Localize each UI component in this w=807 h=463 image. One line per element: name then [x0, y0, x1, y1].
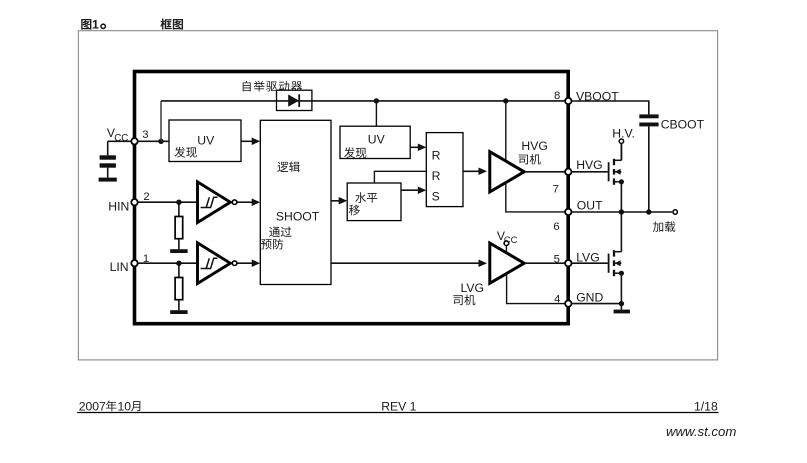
- LVG driver U3: [490, 243, 524, 283]
- wire H.V. to Q1 drain: [620, 143, 622, 160]
- node Q2 source: [619, 271, 624, 276]
- wire level shifter to latch S: [401, 189, 419, 191]
- wire Q1 drain up: [620, 144, 622, 160]
- wire LIN input: [138, 262, 197, 264]
- wire gate (Q2): [572, 262, 608, 264]
- wire HVG driver output to pin 7: [524, 171, 565, 173]
- logic / shoot-through prevention block: [260, 120, 331, 284]
- node bootstrap/HVG driver junction: [503, 98, 508, 103]
- wire down to HVG driver supply: [505, 101, 507, 162]
- wire UV1 to logic: [241, 140, 253, 142]
- svg-text:UV: UV: [197, 134, 215, 148]
- schmitt trigger (LIN): [198, 243, 231, 284]
- terminal VCC (LVG driver): [504, 241, 509, 246]
- pin 7 HVG terminal: [565, 169, 571, 175]
- wire logic to LVG driver: [331, 262, 480, 264]
- wire Q1 source to OUT: [620, 182, 622, 212]
- svg-text:3: 3: [142, 129, 148, 141]
- svg-text:SHOOT: SHOOT: [276, 210, 320, 224]
- svg-text:REV 1: REV 1: [381, 399, 416, 413]
- node Q1 source: [619, 179, 624, 184]
- wire C1 to ground: [107, 168, 109, 178]
- svg-text:5: 5: [554, 254, 560, 266]
- pin 4 GND terminal: [565, 300, 571, 306]
- node bootstrap/UV2 junction: [374, 98, 379, 103]
- ground (VCC cap): [99, 178, 117, 182]
- wire UV2 to latch R: [410, 146, 419, 148]
- wire logic to level shifter: [331, 200, 340, 202]
- svg-text:HVG: HVG: [521, 139, 547, 153]
- svg-text:R: R: [432, 148, 441, 162]
- svg-text:H.V.: H.V.: [612, 126, 635, 140]
- bootstrap driver box: [277, 90, 312, 110]
- RS latch block: [426, 133, 463, 207]
- HVG driver U2: [490, 152, 524, 192]
- svg-text:HIN: HIN: [108, 200, 129, 214]
- ground (power): [614, 310, 630, 314]
- node GND: [619, 301, 624, 306]
- wire gate (Q1): [572, 171, 608, 173]
- svg-text:2: 2: [143, 191, 149, 203]
- label 自举驱动器: [243, 81, 251, 92]
- UV detection block 1: [169, 120, 241, 162]
- pin 5 LVG terminal: [565, 260, 571, 266]
- node OUT / CBOOT: [646, 209, 651, 214]
- inverter bubble (HIN): [232, 200, 237, 205]
- ground (HIN resistor): [170, 249, 187, 253]
- node LIN junction: [176, 261, 181, 266]
- wire latch to HVG driver: [463, 170, 480, 172]
- wire GND pin to ground: [572, 303, 622, 305]
- svg-text:LIN: LIN: [110, 260, 129, 274]
- wire HIN trigger to logic: [238, 201, 254, 203]
- svg-text:www.st.com: www.st.com: [666, 424, 736, 439]
- wire CBOOT to OUT node: [648, 126, 650, 212]
- svg-text:2007: 2007: [79, 399, 106, 413]
- wire VCC up to bootstrap rail: [160, 101, 162, 141]
- resistor R2 (LIN pulldown): [178, 263, 180, 277]
- inverter bubble (LIN): [232, 261, 237, 266]
- wire bootstrap rail (to pin 8): [161, 100, 566, 102]
- svg-text:LVG: LVG: [461, 281, 484, 295]
- UV detection block 2: [340, 126, 410, 158]
- wire Q2 drain to OUT: [620, 212, 622, 252]
- svg-text:UV: UV: [368, 133, 386, 147]
- pin 1 LIN terminal: [131, 260, 137, 266]
- svg-text:10: 10: [118, 399, 132, 413]
- svg-text:7: 7: [553, 183, 559, 195]
- svg-text:S: S: [432, 190, 440, 204]
- svg-text:8: 8: [554, 90, 560, 102]
- wire VBOOT to CBOOT: [572, 101, 649, 114]
- svg-text:6: 6: [553, 221, 559, 233]
- label 加载: [653, 221, 663, 232]
- wire LIN trigger to logic: [238, 262, 254, 264]
- svg-text:1/18: 1/18: [694, 399, 718, 413]
- ground (LIN resistor): [170, 310, 187, 314]
- wire level shifter to latch R (top loop): [374, 171, 426, 183]
- wire LVG driver low rail to GND: [507, 274, 565, 304]
- diode D1 (bootstrap): [288, 95, 299, 107]
- title 框图: [160, 19, 171, 30]
- svg-text:1: 1: [92, 17, 99, 31]
- pin 8 VBOOT terminal: [565, 98, 571, 104]
- wire VCC node to UV1: [138, 140, 170, 142]
- wire HVG driver low rail to OUT: [506, 182, 565, 212]
- pin 2 HIN terminal: [131, 199, 137, 205]
- svg-text:4: 4: [554, 294, 560, 306]
- svg-text:CC: CC: [114, 133, 128, 144]
- pin 3 VCC terminal: [131, 138, 137, 144]
- node OUT / Q1-Q2: [619, 209, 624, 214]
- node HIN junction: [176, 200, 181, 205]
- transistor Q2: [609, 250, 622, 276]
- svg-text:GND: GND: [576, 291, 603, 305]
- wire OUT to load: [572, 211, 673, 213]
- figure frame: [78, 31, 717, 360]
- wire down to UV2: [375, 101, 377, 126]
- wire LVG driver output to pin 5: [524, 262, 565, 264]
- resistor R1 (HIN pulldown): [178, 202, 180, 216]
- transistor Q1: [609, 159, 622, 185]
- capacitor C1 (VCC decoupling): [100, 155, 116, 159]
- capacitor CBOOT: [639, 114, 658, 118]
- wire VCC external: [108, 140, 131, 142]
- terminal load: [673, 210, 677, 214]
- terminal H.V.: [619, 139, 623, 143]
- svg-text:OUT: OUT: [577, 199, 603, 213]
- wire Q2 source to GND: [620, 273, 622, 303]
- svg-text:CBOOT: CBOOT: [661, 118, 705, 132]
- IC package box U1: [135, 72, 569, 324]
- wire HIN input: [138, 201, 197, 203]
- level shifter block: [347, 183, 401, 221]
- svg-text:HVG: HVG: [576, 158, 602, 172]
- pin 6 OUT terminal: [565, 209, 571, 215]
- schmitt trigger (HIN): [198, 182, 231, 223]
- node VCC junction: [158, 139, 163, 144]
- footer rule: [77, 412, 718, 414]
- svg-text:R: R: [432, 169, 441, 183]
- title 图1。: [81, 19, 91, 30]
